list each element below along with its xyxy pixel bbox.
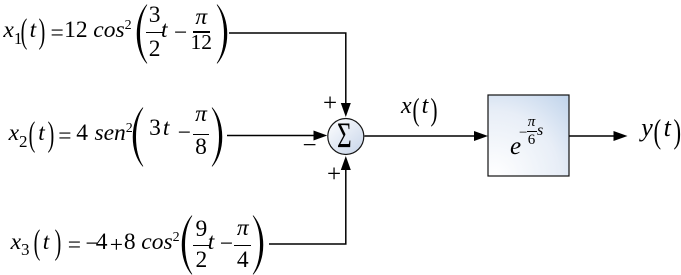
formula x2(t) = 4 sen^2( 3t - pi/8 ) <box>5 104 224 170</box>
fraction pi/6 in exponent <box>527 115 537 148</box>
wire x(t) from summer to delay block <box>365 135 476 137</box>
arrowhead left input <box>314 131 328 141</box>
output arrowhead to y(t) <box>614 131 628 141</box>
minus sign of exponent <box>519 126 527 141</box>
wire from x2(t) to summer left input <box>227 135 314 137</box>
plus sign at bottom input <box>327 162 341 187</box>
minus sign at left input <box>303 133 317 158</box>
output wire from delay block <box>570 135 615 137</box>
arrowhead into delay block <box>474 131 488 141</box>
s variable in exponent <box>537 123 543 139</box>
arrowhead top input <box>341 103 351 117</box>
e base of exponential in delay block <box>510 134 521 159</box>
wire from x1(t) to summer top input <box>229 33 346 104</box>
formula x1(t) = 12 cos^2( 3/2 t - pi/12 ) <box>0 1 229 67</box>
summing junction circle <box>328 119 364 155</box>
formula x3(t) = -4 + 8 cos^2( 9/2 t - pi/4 ) <box>7 212 265 275</box>
wire from x3(t) to summer bottom input <box>269 169 346 244</box>
plus sign at top input <box>323 91 337 116</box>
label x(t) <box>401 93 438 120</box>
sigma symbol in summing junction <box>337 118 352 154</box>
arrowhead bottom input <box>341 156 351 170</box>
delay block rectangle <box>488 95 569 176</box>
label y(t) <box>641 113 681 143</box>
